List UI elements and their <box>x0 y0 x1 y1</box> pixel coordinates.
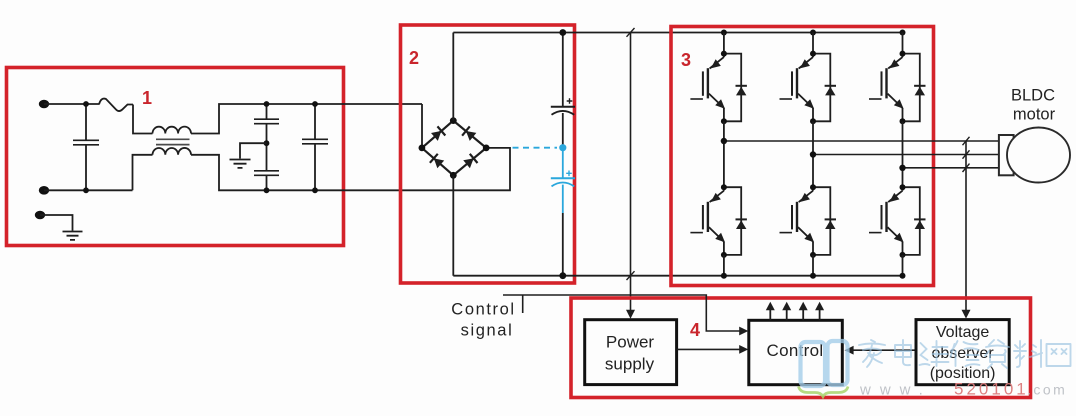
node phase B <box>810 151 816 157</box>
block control <box>749 320 843 384</box>
svg-text:4: 4 <box>690 320 700 340</box>
wire <box>133 155 153 191</box>
transistor Q2 (phase B high) <box>780 51 837 125</box>
svg-text:www.: www. <box>859 382 932 399</box>
svg-text:Control: Control <box>451 301 515 319</box>
transistor Q4 (phase A low) <box>690 184 747 258</box>
block power supply <box>585 320 677 385</box>
choke core <box>156 139 190 144</box>
node <box>810 273 816 279</box>
arrowhead <box>739 345 748 354</box>
node <box>264 140 270 146</box>
wire DC- drop <box>452 175 454 275</box>
crossover slash <box>627 271 635 280</box>
terminal N <box>39 186 49 195</box>
diode D4 <box>463 154 478 169</box>
ground <box>230 160 251 168</box>
wire phase B <box>813 154 999 156</box>
wire DC- rail <box>453 275 902 277</box>
node phase A <box>721 138 727 144</box>
wire <box>40 215 73 231</box>
diode D1 <box>431 126 446 141</box>
wire <box>44 189 133 191</box>
node <box>450 117 457 124</box>
wire <box>562 213 564 276</box>
gate drive arrow 1 <box>769 310 771 321</box>
wire leg A top <box>723 33 725 54</box>
plus mark cyan <box>566 171 572 177</box>
node <box>264 101 270 107</box>
wire <box>191 148 510 190</box>
svg-text:supply: supply <box>605 355 655 374</box>
wire phase C <box>903 167 999 169</box>
arrowhead into observer <box>962 310 971 319</box>
BLDC motor <box>999 135 1014 175</box>
wire midpoint dashed (cyan) <box>513 147 558 149</box>
diode D2 <box>462 126 477 141</box>
wire leg C bottom <box>902 255 904 276</box>
inductor L1a (choke top winding) <box>153 127 192 134</box>
node phase C <box>899 165 905 171</box>
wire leg B mid <box>812 121 814 187</box>
capacitor C6 (bus bottom, cyan) <box>562 148 564 178</box>
capacitor C1 <box>85 104 87 190</box>
capacitor C4 <box>314 104 316 190</box>
node <box>559 29 566 36</box>
node <box>810 30 816 36</box>
capacitor C5 (bus top) <box>562 33 564 107</box>
gate drive arrow 4 <box>819 310 821 321</box>
red annotation box 3 (inverter) <box>671 27 934 286</box>
red annotation box 1 (EMI filter) <box>7 68 344 246</box>
wire leg B top <box>812 33 814 54</box>
svg-text:3: 3 <box>681 50 691 70</box>
wire leg A mid <box>723 121 725 187</box>
svg-text:motor: motor <box>1013 106 1056 124</box>
crossover slash <box>627 28 635 37</box>
wire <box>421 104 423 148</box>
svg-text:.com: .com <box>1027 382 1067 398</box>
node <box>83 101 89 107</box>
watermark book logo <box>801 341 848 386</box>
block voltage observer <box>916 320 1009 385</box>
node <box>721 273 727 279</box>
red annotation box 4 (control section) <box>571 298 1031 398</box>
svg-text:BLDC: BLDC <box>1011 87 1055 105</box>
node <box>83 187 89 193</box>
bridge rectifier D1-D4 <box>422 121 486 176</box>
arrowhead into power supply <box>626 310 635 319</box>
svg-text:2: 2 <box>409 48 419 68</box>
wire phase A <box>724 140 999 142</box>
gate drive arrow 3 <box>802 310 804 321</box>
wire leg C mid <box>902 121 904 187</box>
node <box>312 101 318 107</box>
watermark chinese characters <box>859 340 1071 368</box>
gate drive arrow 2 <box>786 310 788 321</box>
svg-text:Power: Power <box>606 333 655 352</box>
wire power-supply feed <box>630 33 632 311</box>
svg-text:signal: signal <box>461 322 514 340</box>
diode D3 <box>430 154 445 169</box>
ground <box>63 232 83 240</box>
node <box>264 187 270 193</box>
wire control signal <box>503 295 740 331</box>
node <box>483 145 490 152</box>
wire voltage sense <box>965 141 967 310</box>
svg-text:1: 1 <box>142 88 152 108</box>
transistor Q3 (phase C high) <box>869 51 926 125</box>
node <box>450 172 457 179</box>
wire observer to control <box>853 349 916 351</box>
wire leg B bottom <box>812 255 814 276</box>
node <box>900 273 906 279</box>
wire leg A bottom <box>723 255 725 276</box>
capacitor C3 (Y-cap lower) <box>266 175 268 190</box>
svg-text:Voltage: Voltage <box>936 324 989 341</box>
watermark green brace <box>799 387 849 397</box>
wire <box>240 143 267 158</box>
terminal L <box>39 100 49 109</box>
tap slash B <box>963 150 970 158</box>
tick <box>522 295 524 313</box>
node <box>721 30 727 36</box>
plus mark <box>567 98 573 104</box>
wire leg C top <box>902 33 904 54</box>
node <box>419 145 426 152</box>
node <box>900 30 906 36</box>
wire DC+ rail <box>453 32 902 34</box>
capacitor C2 (Y-cap upper) <box>266 104 268 171</box>
wire DC+ riser <box>452 33 454 121</box>
wire <box>133 105 153 134</box>
transistor Q6 (phase C low) <box>869 184 926 258</box>
tap slash A <box>963 137 970 145</box>
wire power supply to control <box>677 348 741 350</box>
node <box>559 272 566 279</box>
svg-text:520101: 520101 <box>954 380 1029 399</box>
transistor Q1 (phase A high) <box>690 51 747 125</box>
terminal PE <box>35 211 45 220</box>
arrowhead <box>845 346 854 355</box>
wire <box>44 103 99 105</box>
node midpoint (cyan) <box>559 144 566 151</box>
tap slash C <box>963 164 970 172</box>
node <box>312 187 318 193</box>
transistor Q5 (phase B low) <box>780 184 837 258</box>
fuse F1 <box>99 99 133 111</box>
inductor L1b (choke bottom winding) <box>153 148 192 155</box>
arrowhead into control <box>739 327 748 336</box>
wire <box>191 104 422 134</box>
red annotation box 2 (rectifier) <box>401 25 575 283</box>
